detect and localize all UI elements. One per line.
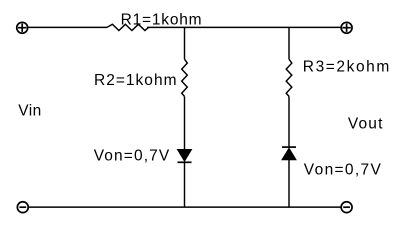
terminal minus bottom-right bbox=[341, 202, 352, 213]
wire R3 to diode D2 bbox=[288, 96, 290, 147]
wire node B to plus terminal top-right bbox=[289, 26, 341, 28]
diode D1 bbox=[178, 150, 192, 163]
wire node B down to R3 bbox=[288, 27, 290, 59]
wire R2 to diode D1 bbox=[184, 96, 186, 149]
svg-text:Vin: Vin bbox=[18, 103, 41, 120]
resistor R3 bbox=[286, 59, 292, 96]
wire node A to node B bbox=[185, 26, 290, 28]
svg-text:R1=1kohm: R1=1kohm bbox=[121, 12, 202, 29]
svg-text:Von=0,7V: Von=0,7V bbox=[304, 161, 382, 178]
resistor R2 bbox=[182, 59, 188, 96]
wire node A down to R2 bbox=[184, 27, 186, 59]
svg-text:Vout: Vout bbox=[348, 116, 383, 133]
terminal minus bottom-left bbox=[17, 202, 28, 213]
wire D1 to bottom rail bbox=[184, 162, 186, 207]
terminal plus top-left bbox=[17, 22, 28, 33]
svg-text:R2=1kohm: R2=1kohm bbox=[94, 72, 177, 89]
svg-text:Von=0,7V: Von=0,7V bbox=[94, 148, 170, 165]
terminal plus top-right bbox=[341, 22, 352, 33]
wire top-left to R1 bbox=[28, 26, 107, 28]
wire D2 to bottom rail bbox=[288, 160, 290, 207]
svg-text:R3=2kohm: R3=2kohm bbox=[303, 59, 390, 76]
diode D2 bbox=[282, 147, 296, 160]
wire R1 to node A bbox=[147, 26, 185, 28]
resistor R1 bbox=[107, 24, 149, 30]
bottom rail wire bbox=[29, 206, 341, 208]
